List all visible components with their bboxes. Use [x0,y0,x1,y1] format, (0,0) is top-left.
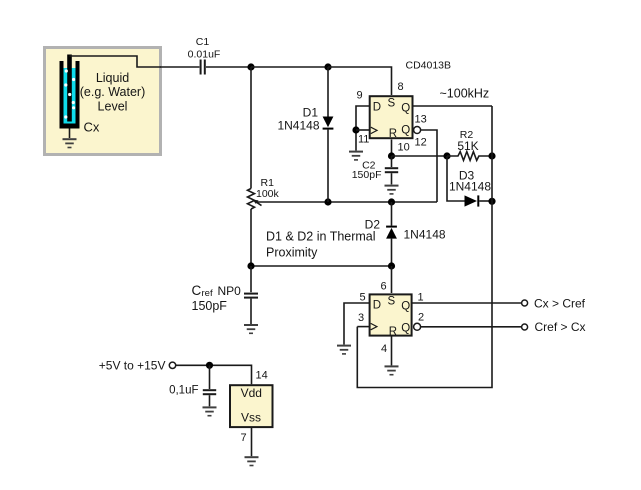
svg-text:R: R [389,128,397,140]
pin 12 bubble (Q-bar) [414,127,421,134]
svg-text:10: 10 [398,142,410,154]
ground (FF1 D/CLK) [349,151,363,161]
svg-text:CD4013B: CD4013B [406,60,452,72]
svg-text:Cx > Cref: Cx > Cref [534,297,586,311]
ground (FF2 R) [385,365,399,375]
svg-text:5: 5 [360,292,366,304]
svg-text:51K: 51K [457,139,478,153]
flip-flop U1b CD4013B [370,294,412,338]
diode D2 [386,202,397,266]
svg-text:Level: Level [98,99,128,113]
svg-text:Liquid: Liquid [96,71,129,85]
svg-text:D1 & D2 in Thermal: D1 & D2 in Thermal [266,229,376,243]
svg-text:150pF: 150pF [352,169,382,181]
svg-text:~100kHz: ~100kHz [440,87,490,101]
ground (FF2 D) [337,345,351,355]
pin 5 wire (D to ground) [344,303,370,345]
flip-flop U1a CD4013B [370,96,413,140]
svg-text:7: 7 [241,432,247,444]
ground (Vss) [245,456,259,466]
pin 7 wire (Vss to ground) [251,428,253,456]
svg-text:6: 6 [381,281,387,293]
svg-text:12: 12 [415,137,427,149]
svg-text:9: 9 [357,90,363,102]
note D1 D2 thermal proximity [266,229,376,259]
power box Vdd/Vss [230,385,273,427]
pin 13 wire (Q output) [414,105,493,107]
wire supply to Vdd [176,365,252,384]
svg-text:ref: ref [202,288,213,299]
pin 4 wire (R to ground) [391,337,393,366]
pin 6 wire (S) [391,266,393,293]
svg-text:Q: Q [401,125,410,137]
pin 2 wire [421,326,522,328]
capacitive liquid-level probe Cx [60,55,80,129]
node A junction [247,63,254,70]
svg-text:13: 13 [415,114,427,126]
svg-text:+5V to +15V: +5V to +15V [99,359,166,373]
junction D2 top [388,198,395,205]
wire Q to FF2 clock (right riser) [357,106,492,388]
capacitor C2 [385,156,398,184]
wire R2 left to D3 [447,156,465,201]
svg-text:C1: C1 [196,36,210,48]
svg-text:D1: D1 [303,106,319,120]
ground (Cref) [244,324,258,334]
svg-text:Q: Q [401,300,410,312]
svg-text:Q: Q [401,102,410,114]
svg-text:Vdd: Vdd [241,386,262,400]
pin 11 wire (clock) [356,129,370,131]
svg-text:Q: Q [401,322,410,334]
svg-text:3: 3 [358,312,364,324]
svg-text:1N4148: 1N4148 [404,228,446,242]
svg-text:1N4148: 1N4148 [449,180,491,194]
svg-text:8: 8 [398,81,404,93]
svg-text:1N4148: 1N4148 [277,119,319,133]
svg-text:100k: 100k [256,188,280,200]
diode D3 [465,195,493,206]
junction Cref top [247,262,254,269]
svg-text:1: 1 [418,292,424,304]
svg-text:NP0: NP0 [218,284,242,298]
trimmer R1 [248,67,262,266]
ground (probe) [63,129,77,149]
terminal Cx > Cref [522,300,528,306]
svg-text:150pF: 150pF [192,299,228,313]
supply terminal [169,362,175,368]
junction C2 top [388,152,395,159]
wire node B to FF1 pin 8 [328,67,392,95]
ground (C2) [385,185,399,195]
junction D1 bottom [324,198,331,205]
label Liquid (e.g. Water) Level [80,71,146,113]
wire Cref node to FF2 pin 6 [251,265,392,267]
svg-text:Proximity: Proximity [266,246,318,260]
pin 2 bubble (Q-bar) [414,323,421,330]
svg-text:Vss: Vss [241,411,261,425]
diode D1 [323,67,334,202]
junction D/CLK [352,126,359,133]
wire pin10 to R2 left [392,155,448,157]
node B junction [324,63,331,70]
svg-text:D: D [373,102,381,114]
capacitor 0,1uF [203,365,216,406]
junction R2 left [443,152,450,159]
svg-text:S: S [388,296,396,308]
wire sensor box edge to C1 [160,66,199,68]
svg-text:0.01uF: 0.01uF [188,49,221,61]
svg-text:0,1uF: 0,1uF [169,385,198,397]
wire R1 wiper to Q-bar riser [257,201,438,203]
resistor R2 [447,152,492,161]
pin 3 wire (clock) [357,326,370,328]
capacitor C1 [200,60,206,75]
wire probe to C1 [70,56,162,67]
wire C1 to node A [206,66,251,68]
svg-text:D: D [373,300,381,312]
wire Q-bar to riser [421,130,437,202]
svg-text:R: R [389,326,397,338]
junction R2 right [488,152,495,159]
pin 1 wire (Q output) [413,302,522,304]
junction D3 right [488,198,495,205]
svg-text:(e.g. Water): (e.g. Water) [80,85,146,99]
svg-text:11: 11 [358,134,369,146]
ground (bypass cap) [203,406,217,416]
junction bypass cap [206,362,213,369]
terminal Cref > Cx [522,324,528,330]
junction FF2 pin 6 [388,262,395,269]
svg-text:2: 2 [418,311,424,323]
sensor box [45,48,161,155]
svg-text:C: C [192,283,202,298]
svg-text:Cx: Cx [84,120,100,135]
wire node A to node B [251,66,328,68]
svg-text:4: 4 [381,343,387,355]
svg-text:S: S [388,98,396,110]
pin 9 wire (D input to ground) [356,106,370,151]
svg-text:Cref > Cx: Cref > Cx [535,320,586,334]
label Cref NP0 [192,283,242,299]
svg-text:14: 14 [256,370,268,382]
capacitor Cref [244,266,258,324]
pin 10 wire (R) [391,140,393,157]
